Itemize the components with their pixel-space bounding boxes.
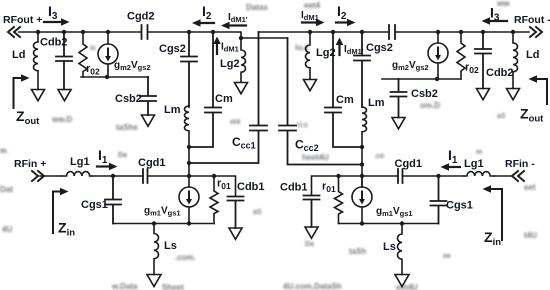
svg-text:aS: aS — [497, 113, 506, 120]
capacitor Ccc1 — [189, 32, 267, 163]
svg-text:Da: Da — [305, 241, 314, 248]
arrow I2 right — [336, 21, 348, 23]
inductor Ld left — [34, 32, 39, 90]
arrow Zout left corner — [14, 78, 23, 108]
wire source/r02 bottom right — [382, 78, 461, 80]
capacitor Cgs1 right — [431, 176, 447, 224]
svg-text:Csb2: Csb2 — [411, 88, 438, 100]
arrow I1 right — [448, 166, 460, 168]
svg-text:Cdb1: Cdb1 — [280, 182, 308, 194]
wire RFin+ rail — [40, 175, 62, 177]
svg-text:taSh: taSh — [349, 247, 366, 256]
ground under Csb2 right — [392, 118, 405, 129]
ground under Lg2 right — [304, 80, 317, 91]
ground under Cdb2 left — [58, 90, 71, 101]
capacitor Cdb1 right — [304, 196, 320, 228]
wire Lg1 to Cgd1 left — [92, 175, 143, 177]
svg-text:U.c: U.c — [297, 122, 308, 129]
svg-text:Cdb1: Cdb1 — [237, 181, 265, 193]
wire top-left rail RFout+ to Cgd2 — [19, 31, 141, 33]
svg-text:m: m — [476, 149, 482, 156]
svg-text:w.: w. — [0, 146, 8, 155]
capacitor Cdb2 right — [475, 32, 491, 89]
svg-text:Da: Da — [118, 152, 127, 159]
ground under Lg2 left — [235, 83, 248, 94]
svg-text:Cdb2: Cdb2 — [486, 67, 514, 79]
ground under Csb2 left — [142, 115, 155, 126]
arrow I3 right — [489, 20, 507, 22]
current source gm2Vgs2 left — [98, 44, 118, 64]
arrow I3 left — [44, 21, 62, 23]
inductor Ls right — [398, 224, 403, 275]
arrow Zin right corner — [490, 189, 502, 240]
svg-text:Cgs1: Cgs1 — [81, 199, 108, 211]
capacitor Cdb1 left — [228, 197, 244, 229]
svg-text:.co: .co — [374, 153, 384, 160]
svg-text:Cgs2: Cgs2 — [366, 42, 393, 54]
current source gm1Vgs1 left — [179, 187, 199, 207]
arrow Zout right corner — [536, 79, 547, 104]
svg-text:Cgd1: Cgd1 — [395, 158, 423, 170]
capacitor Cgd1 left (series) — [143, 169, 148, 183]
svg-text:eet4U: eet4U — [396, 283, 418, 290]
ground under Cdb1 left — [229, 228, 242, 239]
capacitor Cgd2 right (series) — [389, 25, 395, 39]
arrow I2 left — [199, 22, 214, 24]
inductor Lg2 right — [306, 32, 310, 79]
svg-text:Cgs1: Cgs1 — [446, 200, 473, 212]
svg-text:aS: aS — [253, 209, 262, 216]
svg-text:et4: et4 — [230, 119, 240, 126]
svg-text:RFin -: RFin - — [505, 158, 535, 170]
resistor r01 left — [210, 176, 218, 224]
capacitor Cgd1 right (series) — [398, 169, 403, 183]
svg-text:Cm: Cm — [336, 94, 354, 106]
arrow IdM1 right — [302, 21, 317, 23]
svg-text:iu.c: iu.c — [295, 43, 309, 52]
svg-text:Cgd2: Cgd2 — [127, 11, 155, 23]
wire top-right rail to RFout- — [395, 31, 529, 33]
svg-text:Ld: Ld — [12, 49, 25, 61]
svg-text:Lg2: Lg2 — [316, 47, 336, 59]
resistor r02 right — [457, 32, 465, 79]
wire left drain segment — [148, 32, 288, 38]
port chevron RFout- — [530, 27, 542, 37]
capacitor Ccc2 — [279, 38, 362, 165]
inductor Ls left — [154, 224, 159, 275]
wire Cgd1 right to Lg1 right — [403, 175, 465, 177]
arrow IdM1' up right — [338, 44, 340, 55]
capacitor Cgd2 left (series) — [142, 25, 148, 39]
capacitor Cgs2 right — [354, 32, 370, 107]
svg-text:Datas: Datas — [246, 3, 268, 12]
inductor Lg1 right — [464, 172, 494, 176]
svg-text:RFout +: RFout + — [3, 14, 42, 26]
node dots — [36, 30, 515, 226]
capacitor Cm left — [189, 32, 221, 147]
port chevron RFout+ — [8, 27, 20, 37]
resistor r02 left — [79, 32, 87, 77]
svg-text:Lg2: Lg2 — [220, 58, 240, 70]
inductor Lg2 left — [241, 38, 246, 82]
svg-text:Cdb2: Cdb2 — [40, 37, 68, 49]
capacitor Cm right — [325, 32, 362, 147]
svg-text:Sheet: Sheet — [162, 283, 184, 290]
svg-text:Ld: Ld — [526, 49, 539, 61]
svg-text:.com.: .com. — [175, 253, 196, 262]
ground under Ls left — [147, 275, 161, 287]
svg-text:ww.D: ww.D — [51, 115, 72, 124]
svg-text:RFin +: RFin + — [14, 158, 46, 170]
inductor Lm left — [185, 106, 190, 187]
ground under Cdb2 right — [477, 89, 490, 100]
arrow I1 left — [97, 165, 110, 167]
arrow IdM1 up left — [216, 43, 218, 54]
svg-text:Lg1: Lg1 — [70, 156, 90, 168]
inductor Lm right — [362, 107, 367, 187]
svg-text:RFout -: RFout - — [514, 14, 550, 26]
svg-text:ww: ww — [496, 0, 510, 8]
svg-text:om.D: om.D — [420, 101, 440, 110]
arrow Zin left corner — [53, 192, 61, 234]
inductor Ld right — [513, 32, 518, 89]
inductor Lg1 left — [62, 172, 92, 176]
capacitor Cdb2 left — [56, 32, 72, 90]
current source gm2Vgs2 right — [428, 43, 448, 63]
svg-text:ic: ic — [90, 45, 96, 52]
wire Lg1 right to RFin- port — [494, 175, 512, 177]
capacitor Csb2 right — [391, 79, 407, 118]
svg-text:Lg1: Lg1 — [464, 158, 484, 170]
svg-text:eet4: eet4 — [304, 1, 321, 10]
ground under Ld right — [507, 89, 520, 100]
capacitor Cgs1 left — [105, 176, 121, 224]
capacitor Csb2 left — [140, 77, 156, 115]
wire source/r02 bottom left — [81, 76, 148, 78]
port chevron RFin+ — [32, 171, 44, 181]
port chevron RFin- — [512, 171, 524, 181]
svg-text:taShe: taShe — [116, 123, 138, 132]
svg-text:4U.com.DataSh: 4U.com.DataSh — [283, 282, 342, 290]
svg-text:Cm: Cm — [215, 93, 233, 105]
wire source rail left — [113, 223, 214, 225]
svg-text:Dat: Dat — [0, 185, 13, 194]
svg-text:ee: ee — [443, 253, 451, 260]
svg-text:Ls: Ls — [164, 240, 177, 252]
svg-text:t4U: t4U — [524, 231, 537, 240]
svg-text:Ls: Ls — [383, 241, 396, 253]
wire right drain segment — [259, 31, 390, 33]
svg-text:heet4U: heet4U — [302, 153, 329, 162]
svg-text:Csb2: Csb2 — [115, 93, 142, 105]
svg-text:w.Data: w.Data — [111, 282, 138, 290]
ground under Ls right — [395, 275, 409, 287]
current source gm1Vgs1 right — [352, 187, 372, 207]
arrow IdM1' left — [228, 24, 246, 26]
resistor r01 right — [335, 176, 343, 224]
svg-text:Cgs2: Cgs2 — [159, 43, 186, 55]
svg-text:Lm: Lm — [164, 104, 181, 116]
wire Cgd1 to Cdb1 left — [148, 176, 236, 197]
capacitor Cgs2 left — [181, 32, 197, 107]
wire RFin- rail — [312, 176, 399, 196]
svg-text:eet: eet — [524, 183, 536, 192]
wire source rail right — [339, 223, 439, 225]
ground under Cdb1 right — [305, 227, 318, 238]
svg-text:Lm: Lm — [368, 97, 385, 109]
ground under Ld left — [32, 90, 45, 101]
svg-text:4U: 4U — [2, 225, 12, 234]
svg-text:Cgd1: Cgd1 — [138, 157, 166, 169]
